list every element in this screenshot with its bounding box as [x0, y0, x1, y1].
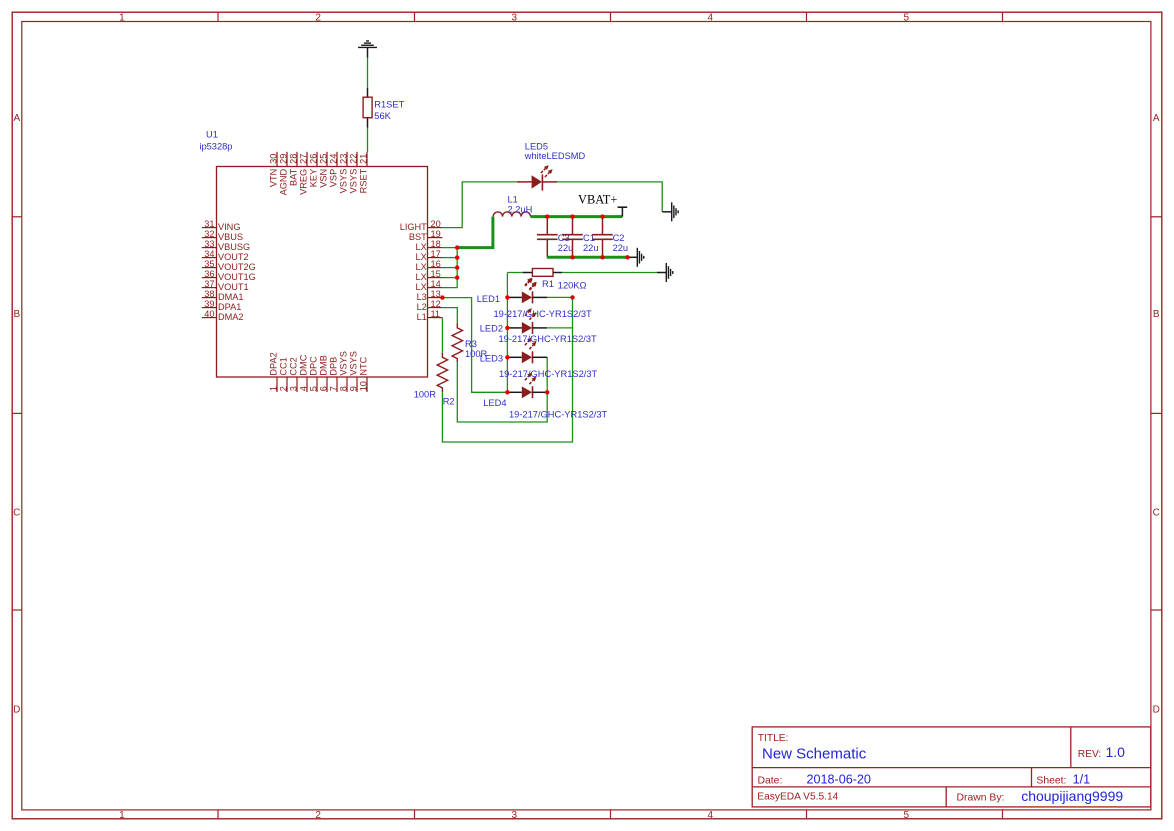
- junction (507.4,392.3): [505, 390, 509, 394]
- svg-text:6: 6: [319, 386, 329, 391]
- svg-text:VSYS: VSYS: [349, 169, 359, 194]
- svg-text:35: 35: [204, 259, 214, 269]
- junction (457.2,267.6): [455, 265, 459, 269]
- svg-text:AGND: AGND: [279, 168, 289, 195]
- svg-text:choupijiang9999: choupijiang9999: [1021, 788, 1123, 804]
- junction (442.4,297.6): [440, 295, 444, 299]
- U1 pin 16 LX: [416, 259, 443, 272]
- junction (602.5,216.6): [600, 214, 604, 218]
- svg-text:R2: R2: [443, 396, 455, 406]
- svg-text:D: D: [13, 704, 20, 715]
- junction (457.2,257.6): [455, 255, 459, 259]
- svg-text:LED3: LED3: [480, 353, 503, 363]
- LED5 whiteLEDSMD: [517, 142, 586, 191]
- LED LED2 19-217/GHC-YR1S2/3T: [507, 308, 547, 334]
- U1 pin 14 LX: [416, 279, 443, 292]
- svg-text:9: 9: [349, 386, 359, 391]
- U1 pin 2 CC1: [279, 357, 289, 392]
- wire R3 to LED3/LED4 cathodes: [457, 357, 547, 422]
- svg-text:A: A: [13, 113, 20, 124]
- svg-text:DMA1: DMA1: [218, 292, 244, 302]
- wire ground bus (thick): [547, 256, 628, 259]
- svg-text:REV:: REV:: [1078, 749, 1101, 760]
- U1 pin 33 VBUSG: [202, 239, 250, 252]
- U1 pin 22 VSYS: [349, 152, 359, 194]
- wire U1 pin17 LX stub: [442, 257, 457, 259]
- svg-text:32: 32: [204, 229, 214, 239]
- wire LED5 cathode to ground: [557, 182, 662, 212]
- svg-text:VBAT+: VBAT+: [578, 193, 617, 207]
- svg-text:18: 18: [431, 239, 441, 249]
- wire VBAT+ bus (thick): [531, 215, 623, 218]
- svg-text:5: 5: [309, 386, 319, 391]
- svg-text:VING: VING: [218, 222, 240, 232]
- junction (507.4,297.4): [505, 295, 509, 299]
- U1 pin 12 L2: [417, 299, 443, 312]
- svg-text:4: 4: [708, 810, 714, 821]
- wire rail to R1: [507, 272, 522, 274]
- svg-text:38: 38: [204, 289, 214, 299]
- wire U1 pin12 L2 to R3: [442, 308, 457, 324]
- svg-text:16: 16: [431, 259, 441, 269]
- svg-text:1: 1: [119, 810, 125, 821]
- U1 pin 32 VBUS: [202, 229, 243, 242]
- capacitor C2 22u: [592, 217, 628, 258]
- svg-text:2.2uH: 2.2uH: [508, 204, 533, 214]
- label LED2: [480, 324, 597, 344]
- svg-text:15: 15: [431, 269, 441, 279]
- wire U1 pin13 L3 to LED4 anode: [442, 298, 507, 393]
- U1 pin 25 VSN: [319, 152, 329, 188]
- svg-text:U1: U1: [206, 130, 218, 140]
- svg-text:30: 30: [269, 154, 279, 164]
- capacitor C3 22u: [537, 217, 573, 258]
- svg-text:B: B: [1153, 309, 1160, 320]
- svg-text:VOUT2: VOUT2: [218, 252, 249, 262]
- svg-text:24: 24: [329, 154, 339, 164]
- svg-text:B: B: [13, 309, 20, 320]
- U1 pin 10 NTC: [359, 356, 369, 392]
- U1 pin 27 VREG: [299, 152, 309, 195]
- svg-text:26: 26: [309, 154, 319, 164]
- svg-text:23: 23: [339, 154, 349, 164]
- svg-text:19-217/GHC-YR1S2/3T: 19-217/GHC-YR1S2/3T: [499, 369, 597, 379]
- svg-text:3: 3: [512, 810, 518, 821]
- ground (top, R1SET net): [358, 41, 377, 58]
- photoresistor R1 120KOhm: [523, 269, 587, 291]
- junction (507.4,327.9): [505, 326, 509, 330]
- U1 pin 38 DMA1: [202, 289, 244, 302]
- svg-text:D: D: [1153, 704, 1160, 715]
- U1 pin 15 LX: [416, 269, 443, 282]
- svg-text:BAT: BAT: [289, 168, 299, 186]
- wire R1 to ground: [562, 272, 657, 274]
- LED LED3 19-217/GHC-YR1S2/3T: [507, 338, 547, 364]
- U1 pin 19 BST: [409, 229, 442, 242]
- svg-text:VSYS: VSYS: [339, 351, 349, 376]
- svg-text:LIGHT: LIGHT: [400, 222, 427, 232]
- svg-text:5: 5: [904, 12, 910, 23]
- svg-text:33: 33: [204, 239, 214, 249]
- svg-text:19-217/GHC-YR1S2/3T: 19-217/GHC-YR1S2/3T: [509, 409, 607, 419]
- U1 pin 35 VOUT2G: [202, 259, 256, 272]
- junction (572.5,297.4): [570, 295, 574, 299]
- U1 pin 8 VSYS: [339, 351, 349, 392]
- ground (LED5 net): [662, 202, 678, 221]
- junction (572.5,216.6): [570, 214, 574, 218]
- svg-text:VBUS: VBUS: [218, 232, 243, 242]
- svg-text:VSYS: VSYS: [339, 169, 349, 194]
- U1 pin 31 VING: [202, 219, 241, 232]
- junction (507.4,357.3): [505, 355, 509, 359]
- wire U1 pin11 L1 to R2: [441, 318, 443, 353]
- svg-text:1: 1: [269, 386, 279, 391]
- junction (627.5,257.3): [625, 255, 629, 259]
- svg-text:TITLE:: TITLE:: [758, 733, 789, 744]
- wire LX bus to inductor L1 (thick): [457, 217, 493, 248]
- wire LX vertical join to pin14: [442, 248, 457, 288]
- svg-text:A: A: [1153, 113, 1160, 124]
- resistor R3 100R: [452, 323, 487, 362]
- svg-text:VOUT1G: VOUT1G: [218, 272, 256, 282]
- svg-text:LED2: LED2: [480, 324, 503, 334]
- U1 pin 20 LIGHT: [400, 219, 443, 232]
- svg-text:7: 7: [329, 386, 339, 391]
- svg-text:56K: 56K: [374, 111, 391, 121]
- svg-text:2: 2: [279, 386, 289, 391]
- svg-text:VSYS: VSYS: [349, 351, 359, 376]
- LED LED1 19-217/GHC-YR1S2/3T: [507, 278, 547, 304]
- junction (547.2,392.3): [545, 390, 549, 394]
- wire LED2 cathode: [547, 327, 572, 329]
- svg-text:R1SET: R1SET: [374, 100, 404, 110]
- svg-text:19-217/GHC-YR1S2/3T: 19-217/GHC-YR1S2/3T: [494, 309, 592, 319]
- svg-text:1.0: 1.0: [1106, 744, 1126, 760]
- svg-text:39: 39: [204, 299, 214, 309]
- svg-text:L2: L2: [417, 302, 427, 312]
- svg-text:L1: L1: [508, 195, 518, 205]
- wire LED anode rail: [506, 273, 508, 393]
- svg-text:CC2: CC2: [289, 357, 299, 375]
- U1 pin 4 DMC: [299, 354, 309, 392]
- svg-text:100R: 100R: [414, 390, 437, 400]
- svg-text:R1: R1: [542, 279, 554, 289]
- U1 pin 40 DMA2: [202, 309, 244, 322]
- junction (457.2,247.6): [455, 245, 459, 249]
- svg-text:14: 14: [431, 279, 441, 289]
- svg-text:20: 20: [431, 219, 441, 229]
- svg-text:17: 17: [431, 249, 441, 259]
- svg-text:11: 11: [431, 309, 441, 319]
- wire U1 pin15 LX stub: [442, 277, 457, 279]
- U1 pin 36 VOUT1G: [202, 269, 256, 282]
- svg-text:BST: BST: [409, 232, 427, 242]
- U1 pin 24 VSP: [329, 152, 339, 187]
- svg-text:LX: LX: [416, 272, 427, 282]
- junction (572.5,257.3): [570, 255, 574, 259]
- svg-text:22: 22: [349, 154, 359, 164]
- svg-text:LED1: LED1: [477, 294, 500, 304]
- resistor R2 100R: [414, 353, 455, 407]
- IC U1 ip5328p body: [199, 130, 427, 378]
- svg-text:1: 1: [119, 12, 125, 23]
- wire ground to R1SET: [367, 58, 369, 88]
- wire R2 to LED1/LED2 cathodes: [442, 297, 572, 442]
- U1 pin 5 DPC: [309, 356, 319, 392]
- junction (457.2,277.6): [455, 275, 459, 279]
- U1 pin 30 VTN: [269, 152, 279, 187]
- wire LED1 cathode: [547, 296, 572, 298]
- wire U1 pin18 LX stub: [442, 247, 457, 249]
- svg-text:36: 36: [204, 269, 214, 279]
- svg-text:4: 4: [299, 386, 309, 391]
- net flag VBAT+: [578, 193, 627, 217]
- svg-text:DMA2: DMA2: [218, 312, 244, 322]
- svg-text:LX: LX: [416, 252, 427, 262]
- svg-text:L3: L3: [417, 292, 427, 302]
- svg-text:VOUT1: VOUT1: [218, 282, 249, 292]
- svg-text:34: 34: [204, 249, 214, 259]
- svg-text:12: 12: [431, 299, 441, 309]
- svg-text:R3: R3: [465, 339, 477, 349]
- svg-text:VSP: VSP: [329, 169, 339, 187]
- U1 pin 11 L1: [417, 309, 443, 322]
- svg-text:Sheet:: Sheet:: [1036, 776, 1066, 787]
- svg-text:ip5328p: ip5328p: [199, 142, 232, 152]
- U1 pin 13 L3: [417, 289, 443, 302]
- svg-text:40: 40: [204, 309, 214, 319]
- svg-text:C: C: [1153, 508, 1160, 519]
- svg-text:VSN: VSN: [319, 169, 329, 188]
- svg-text:RSET: RSET: [359, 168, 369, 193]
- svg-text:28: 28: [289, 154, 299, 164]
- svg-text:19: 19: [431, 229, 441, 239]
- svg-text:KEY: KEY: [309, 169, 319, 187]
- svg-text:22u: 22u: [583, 243, 599, 253]
- svg-text:L1: L1: [417, 312, 427, 322]
- U1 pin 18 LX: [416, 239, 443, 252]
- svg-text:3: 3: [512, 12, 518, 23]
- U1 pin 3 CC2: [289, 357, 299, 392]
- svg-text:4: 4: [708, 12, 714, 23]
- svg-text:2: 2: [315, 810, 321, 821]
- svg-text:3: 3: [289, 386, 299, 391]
- svg-text:2: 2: [315, 12, 321, 23]
- svg-text:CC1: CC1: [279, 357, 289, 375]
- svg-text:1/1: 1/1: [1073, 773, 1091, 787]
- inductor L1 2.2uH: [493, 195, 532, 217]
- ground (capacitor bus): [628, 248, 644, 267]
- svg-text:LX: LX: [416, 242, 427, 252]
- resistor R1SET 56K: [363, 88, 404, 128]
- svg-text:LX: LX: [416, 282, 427, 292]
- svg-text:EasyEDA V5.5.14: EasyEDA V5.5.14: [757, 792, 838, 803]
- U1 pin 21 RSET: [359, 152, 369, 194]
- svg-text:37: 37: [204, 279, 214, 289]
- svg-text:25: 25: [319, 154, 329, 164]
- svg-text:VOUT2G: VOUT2G: [218, 262, 256, 272]
- svg-text:27: 27: [299, 154, 309, 164]
- svg-text:whiteLEDSMD: whiteLEDSMD: [524, 151, 586, 161]
- LED LED4 19-217/GHC-YR1S2/3T: [507, 373, 547, 399]
- svg-text:VREG: VREG: [299, 169, 309, 195]
- wire U1 pin16 LX stub: [442, 267, 457, 269]
- wire R1SET to U1 pin 21 RSET: [367, 128, 369, 152]
- title block: [752, 727, 1151, 807]
- svg-text:8: 8: [339, 386, 349, 391]
- label LED4: [483, 398, 607, 419]
- svg-text:VBUSG: VBUSG: [218, 242, 250, 252]
- svg-text:DMC: DMC: [299, 354, 309, 375]
- svg-text:21: 21: [359, 154, 369, 164]
- svg-text:DPC: DPC: [309, 356, 319, 376]
- svg-text:VTN: VTN: [269, 169, 279, 187]
- label LED1: [477, 294, 592, 319]
- svg-text:C2: C2: [613, 233, 625, 243]
- U1 pin 34 VOUT2: [202, 249, 249, 262]
- svg-text:31: 31: [204, 219, 214, 229]
- svg-text:5: 5: [904, 810, 910, 821]
- label LED3: [480, 353, 598, 379]
- svg-text:29: 29: [279, 154, 289, 164]
- U1 pin 28 BAT: [289, 152, 299, 186]
- svg-text:10: 10: [359, 381, 369, 391]
- svg-text:DPB: DPB: [329, 357, 339, 376]
- svg-text:Date:: Date:: [758, 776, 783, 787]
- U1 pin 26 KEY: [309, 152, 319, 187]
- svg-text:19-217/GHC-YR1S2/3T: 19-217/GHC-YR1S2/3T: [499, 334, 597, 344]
- svg-text:C: C: [13, 508, 20, 519]
- U1 pin 9 VSYS: [349, 351, 359, 392]
- U1 pin 29 AGND: [279, 152, 289, 196]
- svg-text:LED4: LED4: [483, 398, 506, 408]
- svg-text:22u: 22u: [613, 243, 629, 253]
- svg-text:NTC: NTC: [359, 356, 369, 375]
- U1 pin 17 LX: [416, 249, 443, 262]
- svg-text:13: 13: [431, 289, 441, 299]
- U1 pin 1 DPA2: [269, 352, 279, 392]
- svg-text:New Schematic: New Schematic: [762, 746, 867, 763]
- junction (602.5,257.3): [600, 255, 604, 259]
- ground (R1 net): [657, 263, 673, 282]
- svg-text:DMB: DMB: [319, 355, 329, 375]
- U1 pin 23 VSYS: [339, 152, 349, 194]
- junction (547.3,216.6): [545, 214, 549, 218]
- wire U1 pin20 LIGHT to LED5 anode: [442, 182, 517, 228]
- svg-text:DPA2: DPA2: [269, 352, 279, 375]
- U1 pin 7 DPB: [329, 357, 339, 392]
- svg-text:2018-06-20: 2018-06-20: [807, 773, 871, 787]
- capacitor C1 22u: [562, 217, 598, 258]
- svg-text:22u: 22u: [558, 243, 574, 253]
- svg-text:120KΩ: 120KΩ: [558, 281, 587, 291]
- svg-text:LX: LX: [416, 262, 427, 272]
- U1 pin 37 VOUT1: [202, 279, 249, 292]
- U1 pin 39 DPA1: [202, 299, 242, 312]
- svg-text:DPA1: DPA1: [218, 302, 241, 312]
- svg-text:Drawn By:: Drawn By:: [957, 792, 1005, 803]
- U1 pin 6 DMB: [319, 355, 329, 392]
